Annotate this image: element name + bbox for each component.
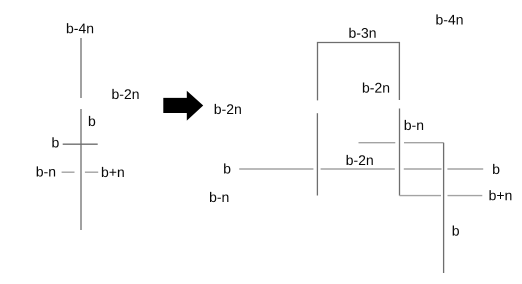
- long b line segment 4: [447, 168, 483, 170]
- long b line segment 1: [239, 168, 313, 170]
- vertical line x444: [443, 143, 445, 273]
- label b (right of long line): [493, 164, 499, 174]
- gray line y143 right segment: [404, 142, 444, 144]
- b+n line left segment: [400, 195, 442, 197]
- label b-n (lower left): [210, 192, 228, 202]
- label b (bottom): [453, 226, 459, 236]
- label b-2n (right of arrow): [215, 104, 241, 114]
- label b+n (left diagram): [102, 167, 124, 177]
- label b-2n (above long line): [347, 155, 373, 165]
- label b-3n (above bracket): [349, 28, 375, 38]
- solid tick at b: [63, 143, 98, 145]
- dashed tick left dash: [62, 171, 75, 173]
- label b-2n (left diagram): [112, 89, 138, 99]
- long b line segment 2: [321, 168, 395, 170]
- black arrow: [163, 91, 203, 121]
- label b (right of left number line): [89, 116, 95, 126]
- label b-2n (inside bracket): [363, 83, 389, 93]
- long b line segment 3: [404, 168, 442, 170]
- b-n vertical line: [399, 109, 401, 196]
- left number line upper segment: [80, 38, 82, 98]
- label b-n (left diagram): [37, 166, 55, 176]
- gray line y143 left segment: [359, 142, 396, 144]
- label b-4n (right diagram top): [436, 14, 462, 24]
- label b-4n (left diagram top): [67, 23, 93, 33]
- label b (left of solid tick): [52, 137, 58, 147]
- dashed tick right dash: [85, 171, 98, 173]
- top bracket for b-3n range: [318, 43, 400, 101]
- label b (left of long line): [224, 163, 230, 173]
- label b+n (right): [490, 190, 512, 200]
- b+n line right segment: [448, 195, 483, 197]
- label b-n (right of vertical): [405, 120, 423, 130]
- left number line lower segment: [80, 109, 82, 230]
- right number line lower segment: [316, 113, 318, 195]
